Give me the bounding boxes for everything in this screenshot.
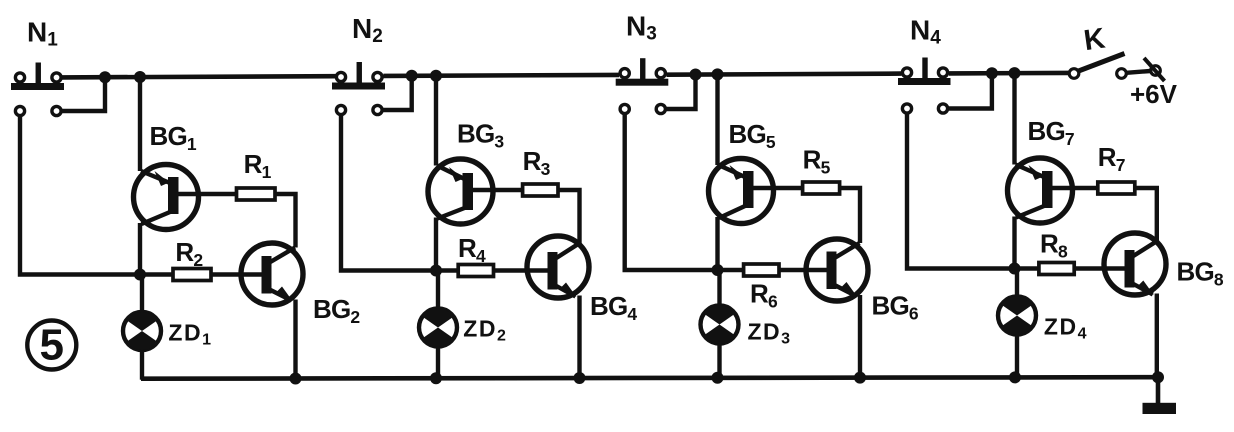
node bus junction A2: [406, 70, 418, 82]
node X1 junction: [134, 269, 146, 281]
node lamp ZD2 ground junction: [430, 372, 442, 384]
lamp ZD1: [123, 312, 161, 350]
wire button N4 contact to node line: [907, 113, 1039, 269]
svg-text:5: 5: [40, 321, 64, 370]
transistor BG7: [1008, 158, 1098, 223]
wire BG6 emitter to ground bus: [858, 295, 862, 379]
node bus junction B2: [430, 70, 442, 82]
svg-text:+6V: +6V: [1130, 79, 1178, 109]
wire R5 to BG6 collector: [840, 188, 860, 243]
wire node to lamp ZD1: [140, 275, 144, 313]
wire top supply bus segment 1: [62, 76, 336, 77]
node bus junction B4: [1009, 67, 1021, 79]
lamp ZD3: [701, 305, 739, 343]
push button N3: [616, 58, 669, 113]
wire button N1 contact to node line: [20, 116, 173, 275]
wire BG2 emitter to ground bus: [293, 300, 297, 380]
node ground junction: [1152, 371, 1164, 383]
transistor BG8: [1104, 233, 1166, 295]
wire BG5 collector to node: [715, 217, 719, 270]
transistor BG4: [527, 236, 589, 298]
wire top supply bus segment 2: [383, 75, 619, 76]
resistor R6: [744, 264, 779, 276]
wire button N3 contact to node line: [625, 114, 744, 271]
push button N1: [11, 63, 64, 116]
push button N4: [898, 58, 951, 114]
wire ground bus: [141, 377, 1158, 379]
wire R7 to BG8 collector: [1135, 188, 1157, 242]
resistor R2: [173, 269, 211, 281]
resistor R4: [458, 265, 493, 277]
node bus junction A3: [690, 69, 702, 81]
wire BG8 emitter to ground bus: [1155, 294, 1159, 379]
wire button N2 contact to bus: [383, 76, 412, 110]
ground: [1143, 377, 1177, 414]
transistor BG5: [709, 159, 803, 224]
lamp ZD4: [998, 296, 1036, 334]
node BG6 emitter junction: [854, 372, 866, 384]
node X2 junction: [430, 265, 442, 277]
wire button N2 contact to node line: [341, 115, 458, 271]
wire BG4 emitter to ground bus: [577, 296, 581, 380]
wire BG7 collector to node: [1012, 217, 1016, 269]
figure label 5: [27, 321, 76, 370]
wire node to lamp ZD2: [436, 271, 440, 309]
node BG4 emitter junction: [574, 372, 586, 384]
node X3 junction: [712, 264, 724, 276]
wire node to lamp ZD4: [1015, 269, 1019, 297]
wire bus to BG3 emitter: [434, 76, 438, 166]
node lamp ZD3 ground junction: [712, 372, 724, 384]
switch K: [1069, 54, 1126, 79]
wire R2 to BG2 base: [211, 272, 269, 276]
resistor R5: [803, 182, 840, 194]
wire lamp ZD3 to ground bus: [717, 344, 721, 379]
node bus junction B1: [134, 71, 146, 83]
resistor R3: [523, 184, 558, 196]
node X4 junction: [1009, 263, 1021, 275]
wire bus to BG5 emitter: [715, 74, 719, 165]
transistor BG3: [428, 159, 523, 224]
wire R1 to BG2 collector: [275, 194, 296, 248]
wire lamp ZD4 to ground bus: [1015, 335, 1019, 379]
transistor BG6: [806, 239, 868, 301]
transistor BG1: [134, 165, 237, 230]
node lamp ZD4 ground junction: [1009, 371, 1021, 383]
transistor BG2: [241, 243, 303, 305]
wire button N4 contact to bus: [948, 73, 992, 108]
resistor R8: [1039, 263, 1074, 275]
wire bus to BG1 emitter: [138, 77, 142, 171]
node bus junction A4: [986, 67, 998, 79]
wire BG1 collector to node: [138, 223, 142, 275]
lamp ZD2: [419, 308, 457, 346]
wire lamp ZD1 to ground bus: [140, 350, 144, 380]
wire switch K to +6V terminal: [1127, 71, 1151, 73]
wire button N1 contact to bus: [62, 77, 105, 111]
resistor R1: [237, 188, 276, 200]
terminal +6V: [1144, 58, 1165, 81]
wire button N3 contact to bus: [666, 75, 695, 110]
wire bus to BG7 emitter: [1012, 73, 1016, 164]
node BG2 emitter junction: [290, 373, 302, 385]
resistor R7: [1098, 182, 1135, 194]
wire R3 to BG4 collector: [558, 190, 580, 244]
wire R4 to BG4 base: [494, 268, 556, 272]
svg-text:K: K: [1082, 23, 1107, 58]
wire R8 to BG8 base: [1074, 266, 1132, 270]
push button N2: [332, 62, 385, 115]
wire top supply bus segment 3: [667, 74, 902, 75]
wire node to lamp ZD3: [717, 270, 721, 306]
wire R6 to BG6 base: [779, 268, 834, 272]
wire lamp ZD2 to ground bus: [436, 347, 440, 380]
wire top supply bus segment 4: [949, 71, 1069, 76]
wire BG3 collector to node: [434, 218, 438, 271]
node bus junction B3: [712, 68, 724, 80]
node bus junction A1: [99, 71, 111, 83]
